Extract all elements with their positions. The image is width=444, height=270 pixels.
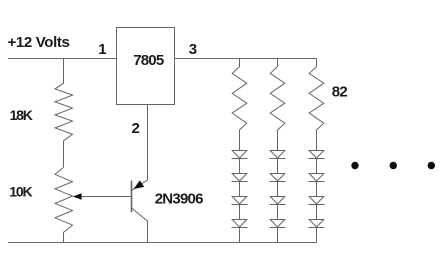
LED D2 — [232, 174, 248, 197]
svg-text:82: 82 — [332, 84, 348, 101]
svg-text:3: 3 — [189, 41, 197, 58]
resistor R5 82 (column 3) — [309, 59, 324, 151]
wire U1 pin 2 lead — [147, 105, 149, 181]
svg-text:2N3906: 2N3906 — [155, 191, 203, 208]
wire pin 3 rail to LED columns — [175, 58, 317, 60]
R2 wiper lead wire — [79, 196, 132, 198]
resistor R4 82 (column 2) — [270, 59, 285, 151]
wire R1 to R2 — [63, 141, 65, 167]
svg-text:7805: 7805 — [133, 52, 164, 69]
transistor Q1 collector — [132, 208, 148, 243]
LED D5 (col2 top) — [270, 151, 286, 174]
transistor Q1 emitter — [132, 180, 148, 190]
LED D6 — [270, 174, 286, 197]
LED D4 — [232, 220, 248, 243]
LED D10 — [309, 174, 325, 197]
LED D12 — [309, 220, 325, 243]
potentiometer R2 10K element — [55, 167, 73, 242]
svg-text:10K: 10K — [9, 184, 32, 200]
svg-text:+12 Volts: +12 Volts — [8, 34, 70, 51]
wire +12V top rail — [8, 58, 117, 60]
LED D7 — [270, 197, 286, 220]
LED D1 (col1 top) — [232, 151, 248, 174]
continuation dots — [351, 162, 435, 169]
ground rail wire (bottom) — [8, 242, 317, 244]
svg-text:2: 2 — [132, 120, 140, 137]
resistor R3 82 (column 1) — [232, 59, 247, 151]
svg-text:18K: 18K — [10, 107, 33, 123]
regulator U1 7805 body — [117, 28, 175, 105]
LED D3 — [232, 197, 248, 220]
LED D9 (col3 top) — [309, 151, 325, 174]
resistor R1 18K — [55, 59, 73, 141]
transistor Q1 base bar — [131, 181, 133, 213]
R2 wiper arrowhead — [73, 193, 82, 200]
LED D11 — [309, 197, 325, 220]
svg-text:1: 1 — [98, 41, 106, 58]
LED D8 — [270, 220, 286, 243]
Q1 emitter arrowhead — [134, 180, 145, 189]
